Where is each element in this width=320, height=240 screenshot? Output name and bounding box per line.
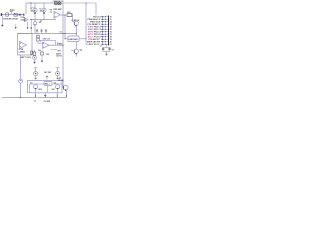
svg-text:12V7A: 12V7A bbox=[56, 55, 62, 58]
svg-text:BT1: BT1 bbox=[58, 50, 61, 52]
svg-text:X1: X1 bbox=[112, 50, 114, 52]
svg-text:R12: R12 bbox=[67, 12, 70, 14]
svg-text:LM7805: LM7805 bbox=[69, 39, 79, 41]
svg-text:BATT CHG: BATT CHG bbox=[20, 56, 31, 59]
svg-text:Q4: Q4 bbox=[54, 81, 56, 84]
svg-text:Q2: Q2 bbox=[80, 49, 82, 51]
svg-text:REL1: REL1 bbox=[45, 84, 50, 86]
svg-text:R8: R8 bbox=[39, 50, 41, 52]
svg-text:F1: F1 bbox=[13, 10, 15, 12]
svg-text:2k2: 2k2 bbox=[31, 11, 34, 13]
svg-text:PWR AMP: PWR AMP bbox=[53, 8, 62, 11]
svg-text:LM358: LM358 bbox=[19, 52, 25, 54]
svg-text:C2: C2 bbox=[40, 20, 42, 22]
svg-text:C7: C7 bbox=[100, 46, 102, 48]
svg-text:K1: K1 bbox=[30, 82, 32, 84]
svg-text:FUSE SW 230VAC: FUSE SW 230VAC bbox=[3, 18, 19, 21]
svg-text:547: 547 bbox=[52, 88, 55, 91]
svg-text:BD140: BD140 bbox=[58, 79, 63, 82]
svg-text:CHG CTL: CHG CTL bbox=[43, 38, 51, 40]
svg-text:LM358: LM358 bbox=[21, 19, 26, 21]
svg-text:BC5: BC5 bbox=[39, 89, 42, 91]
svg-text:2k2: 2k2 bbox=[40, 11, 43, 13]
svg-text:C9: C9 bbox=[34, 100, 36, 102]
svg-text:21: 21 bbox=[110, 44, 112, 46]
svg-text:C3: C3 bbox=[50, 12, 52, 14]
svg-text:R5: R5 bbox=[39, 22, 41, 24]
svg-text:RLY DRV: RLY DRV bbox=[44, 72, 52, 74]
svg-text:0V GND: 0V GND bbox=[44, 101, 51, 103]
svg-text:AVCC PC3 P: AVCC PC3 P bbox=[89, 43, 101, 46]
svg-text:CHARGE 12V: CHARGE 12V bbox=[53, 0, 65, 3]
